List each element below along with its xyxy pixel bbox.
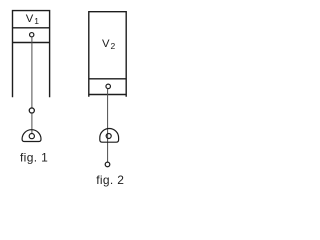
float eyelet fig 2 bbox=[106, 134, 111, 139]
svg-text:fig. 2: fig. 2 bbox=[96, 173, 124, 187]
hook eyelet on piston 2 bbox=[106, 84, 111, 89]
string upper segment fig 1 bbox=[31, 37, 33, 108]
bottom ring weight fig 2 bbox=[105, 162, 110, 167]
connecting ring fig 1 bbox=[29, 108, 34, 113]
float dome fig 2 bbox=[100, 129, 119, 143]
svg-text:V: V bbox=[26, 13, 34, 25]
cylinder 2 walls bbox=[89, 12, 126, 97]
cylinder 1 piston top line bbox=[13, 27, 50, 29]
cylinder 2 piston bottom line bbox=[89, 94, 126, 96]
cylinder 1 piston bottom line bbox=[13, 42, 50, 44]
svg-text:1: 1 bbox=[34, 16, 39, 26]
plumb bob dome fig 1 bbox=[22, 130, 41, 142]
string lower segment fig 1 bbox=[31, 113, 33, 134]
svg-text:V: V bbox=[102, 38, 110, 50]
string fig 2 bbox=[107, 89, 109, 162]
svg-text:fig. 1: fig. 1 bbox=[20, 151, 48, 165]
bob eyelet fig 1 bbox=[29, 134, 34, 139]
svg-text:2: 2 bbox=[111, 41, 116, 51]
cylinder 1 walls bbox=[13, 11, 50, 98]
cylinder 2 piston top line bbox=[89, 78, 126, 80]
hook eyelet on piston 1 bbox=[30, 33, 34, 37]
